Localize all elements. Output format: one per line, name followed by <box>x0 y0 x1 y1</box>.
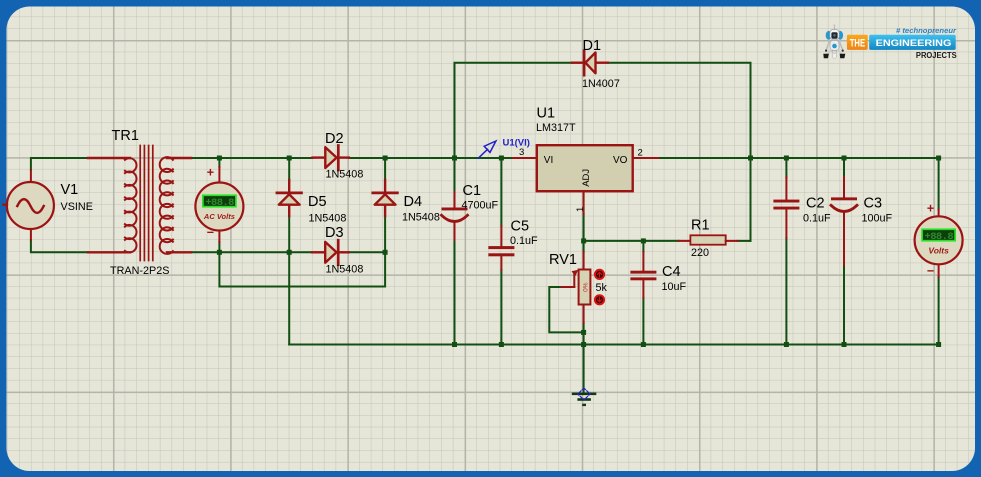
wire D4 top <box>384 158 386 180</box>
svg-text:RV1: RV1 <box>549 252 577 268</box>
svg-text:D4: D4 <box>404 194 423 210</box>
svg-text:0%: 0% <box>583 282 590 292</box>
svg-text:100uF: 100uF <box>862 213 893 225</box>
svg-text:1N5408: 1N5408 <box>326 169 364 181</box>
core <box>140 146 153 261</box>
AC voltmeter <box>195 166 243 243</box>
svg-text:220: 220 <box>691 247 709 259</box>
svg-text:10uF: 10uF <box>662 281 687 293</box>
wire U1 ADJ down <box>583 214 585 241</box>
wire DC voltmeter bottom <box>938 277 940 345</box>
transformer TR1 <box>88 146 191 261</box>
sine source V1 <box>4 170 54 240</box>
junction D3 cathode / D4 anode / AC2 loop <box>383 250 388 255</box>
svg-text:D1: D1 <box>583 38 602 54</box>
svg-text:0.1uF: 0.1uF <box>510 235 538 247</box>
wire bottom ground rail <box>289 344 938 346</box>
wire D4 bottom <box>384 216 386 252</box>
svg-text:4700uF: 4700uF <box>462 200 499 212</box>
svg-text:C5: C5 <box>511 219 530 235</box>
svg-text:Volts: Volts <box>928 246 949 256</box>
wire RV1 top stub <box>583 241 585 252</box>
wire D1 right leg down to R1 <box>608 63 751 241</box>
wire C5 top <box>500 158 502 226</box>
wire top rail left (AC1 net) <box>31 158 88 170</box>
wire ADJ row to R1 <box>584 240 679 242</box>
capacitor C2 <box>773 177 799 238</box>
svg-text:D5: D5 <box>308 194 327 210</box>
RV1 down button <box>595 295 604 304</box>
wire V1 bottom <box>31 240 88 252</box>
wire TR1 secondary bottom to bridge row <box>191 251 312 253</box>
junction D5 anode / D3 anode / DC- leg <box>287 250 292 255</box>
svg-text:AC Volts: AC Volts <box>203 212 235 221</box>
potentiometer RV1 <box>562 252 591 323</box>
wire RV1 junction to ground rail <box>583 332 585 344</box>
DC voltmeter <box>915 202 963 279</box>
svg-text:U1(VI): U1(VI) <box>503 138 530 149</box>
primary coil loops <box>125 158 137 252</box>
svg-text:TRAN-2P2S: TRAN-2P2S <box>110 265 169 277</box>
junction D1 anode / C1 top <box>452 156 457 161</box>
svg-text:+: + <box>207 166 214 180</box>
svg-text:+88.8: +88.8 <box>925 231 954 243</box>
wire C1 bottom <box>454 240 456 345</box>
wire C2 top <box>785 158 787 178</box>
capacitor C5 <box>488 226 514 270</box>
secondary coil loops <box>160 157 173 254</box>
robot <box>823 24 845 59</box>
wiper arm <box>562 286 575 288</box>
svg-text:# technopreneur: # technopreneur <box>896 26 957 35</box>
wire C4 top <box>642 241 644 252</box>
svg-text:TR1: TR1 <box>112 128 139 144</box>
svg-text:1N4007: 1N4007 <box>582 78 620 90</box>
svg-text:C2: C2 <box>806 196 825 212</box>
diode D4 <box>373 180 398 216</box>
junction C4 top on ADJ row <box>641 238 646 243</box>
wire D5 top <box>288 158 290 180</box>
svg-text:C1: C1 <box>463 183 482 199</box>
wire output rail VO <box>658 158 938 210</box>
junction TR1 secondary bottom / AC voltmeter - <box>217 250 222 255</box>
diode D1 <box>572 51 608 75</box>
capacitor C4 <box>630 252 656 298</box>
svg-text:PROJECTS: PROJECTS <box>916 50 957 60</box>
capacitor C3 <box>831 177 857 265</box>
svg-text:THE: THE <box>850 38 865 50</box>
diode D2 <box>313 146 349 171</box>
wire DC- leg <box>288 252 290 344</box>
junction D5 cathode on AC1 rail <box>287 156 292 161</box>
wire D5 bottom <box>288 216 290 252</box>
junction U1 ADJ / RV1 top <box>581 238 586 243</box>
wire AC2 loop <box>219 252 385 286</box>
svg-text:−: − <box>207 226 214 240</box>
svg-text:VI: VI <box>544 155 553 166</box>
junction RV1 leg on ground rail <box>581 342 586 347</box>
wire C3 top <box>843 158 845 178</box>
svg-text:C4: C4 <box>662 264 681 280</box>
wire C3 bottom <box>843 265 845 345</box>
ground <box>572 388 597 406</box>
ENGINEERING box <box>869 35 956 50</box>
svg-text:D3: D3 <box>325 225 344 241</box>
junction C4 bottom on ground rail <box>641 342 646 347</box>
svg-text:V1: V1 <box>61 182 79 198</box>
junction C2 top <box>784 156 789 161</box>
svg-text:3: 3 <box>519 147 524 158</box>
svg-text:2: 2 <box>638 148 643 159</box>
THE box <box>847 35 868 50</box>
svg-text:−: − <box>927 264 934 278</box>
svg-text:ADJ: ADJ <box>581 169 592 187</box>
svg-text:5k: 5k <box>596 282 608 294</box>
wire C5 bottom <box>500 270 502 345</box>
svg-text:D2: D2 <box>325 131 344 147</box>
wire AC voltmeter top stub <box>218 158 220 167</box>
wire RV1 wiper loop <box>549 287 583 332</box>
junction RV1 bottom / wiper return <box>581 330 586 335</box>
svg-text:1N5408: 1N5408 <box>402 212 440 224</box>
logo <box>823 24 957 60</box>
svg-text:1N5408: 1N5408 <box>309 213 347 225</box>
junction VO rail / D1-R1 branch <box>748 156 753 161</box>
wire C1 top <box>454 158 456 192</box>
junction C3 top <box>842 156 847 161</box>
wire ground rail to ground symbol <box>583 345 585 393</box>
junction C2 bottom on ground rail <box>784 342 789 347</box>
wire D1 top link <box>455 63 573 158</box>
svg-text:R1: R1 <box>691 218 710 234</box>
svg-text:1: 1 <box>575 207 586 212</box>
diode D3 <box>312 240 349 265</box>
regulator U1 <box>513 145 658 214</box>
junction AC1 / AC voltmeter + <box>217 156 222 161</box>
capacitor C1 <box>442 192 468 240</box>
junction C5 top / probe point <box>499 156 504 161</box>
resistor R1 <box>679 235 738 244</box>
wire AC voltmeter bottom stub <box>218 242 220 252</box>
svg-text:0.1uF: 0.1uF <box>803 213 831 225</box>
wire C4 bottom <box>642 298 644 345</box>
junction DC voltmeter + <box>936 156 941 161</box>
voltage probe U1(VI) <box>478 141 496 158</box>
svg-text:C3: C3 <box>864 196 883 212</box>
wire C2 bottom <box>785 238 787 345</box>
svg-text:1N5408: 1N5408 <box>326 264 364 276</box>
RV1 up button <box>595 270 604 279</box>
junction C3 bottom on ground rail <box>842 342 847 347</box>
svg-text:U1: U1 <box>537 106 556 122</box>
wire top rail DC+ from D2 to U1 <box>349 157 513 159</box>
junction DC voltmeter - on ground rail <box>936 342 941 347</box>
junction C1 bottom on ground rail <box>452 342 457 347</box>
wire RV1 bottom to junction <box>583 323 585 332</box>
svg-text:ENGINEERING: ENGINEERING <box>876 38 952 48</box>
wire D3 cathode to AC2 junction <box>349 251 385 253</box>
wire R1 right to D1 leg <box>738 240 751 242</box>
diode D5 <box>277 180 302 216</box>
wire top rail AC1 mid <box>191 157 313 159</box>
junction C5 bottom on ground rail <box>499 342 504 347</box>
svg-text:VSINE: VSINE <box>61 201 93 213</box>
svg-text:VO: VO <box>613 155 628 166</box>
junction D4 cathode on DC+ rail <box>383 156 388 161</box>
svg-text:+: + <box>927 202 934 216</box>
svg-text:+88.8: +88.8 <box>205 197 234 209</box>
svg-text:LM317T: LM317T <box>536 122 576 134</box>
